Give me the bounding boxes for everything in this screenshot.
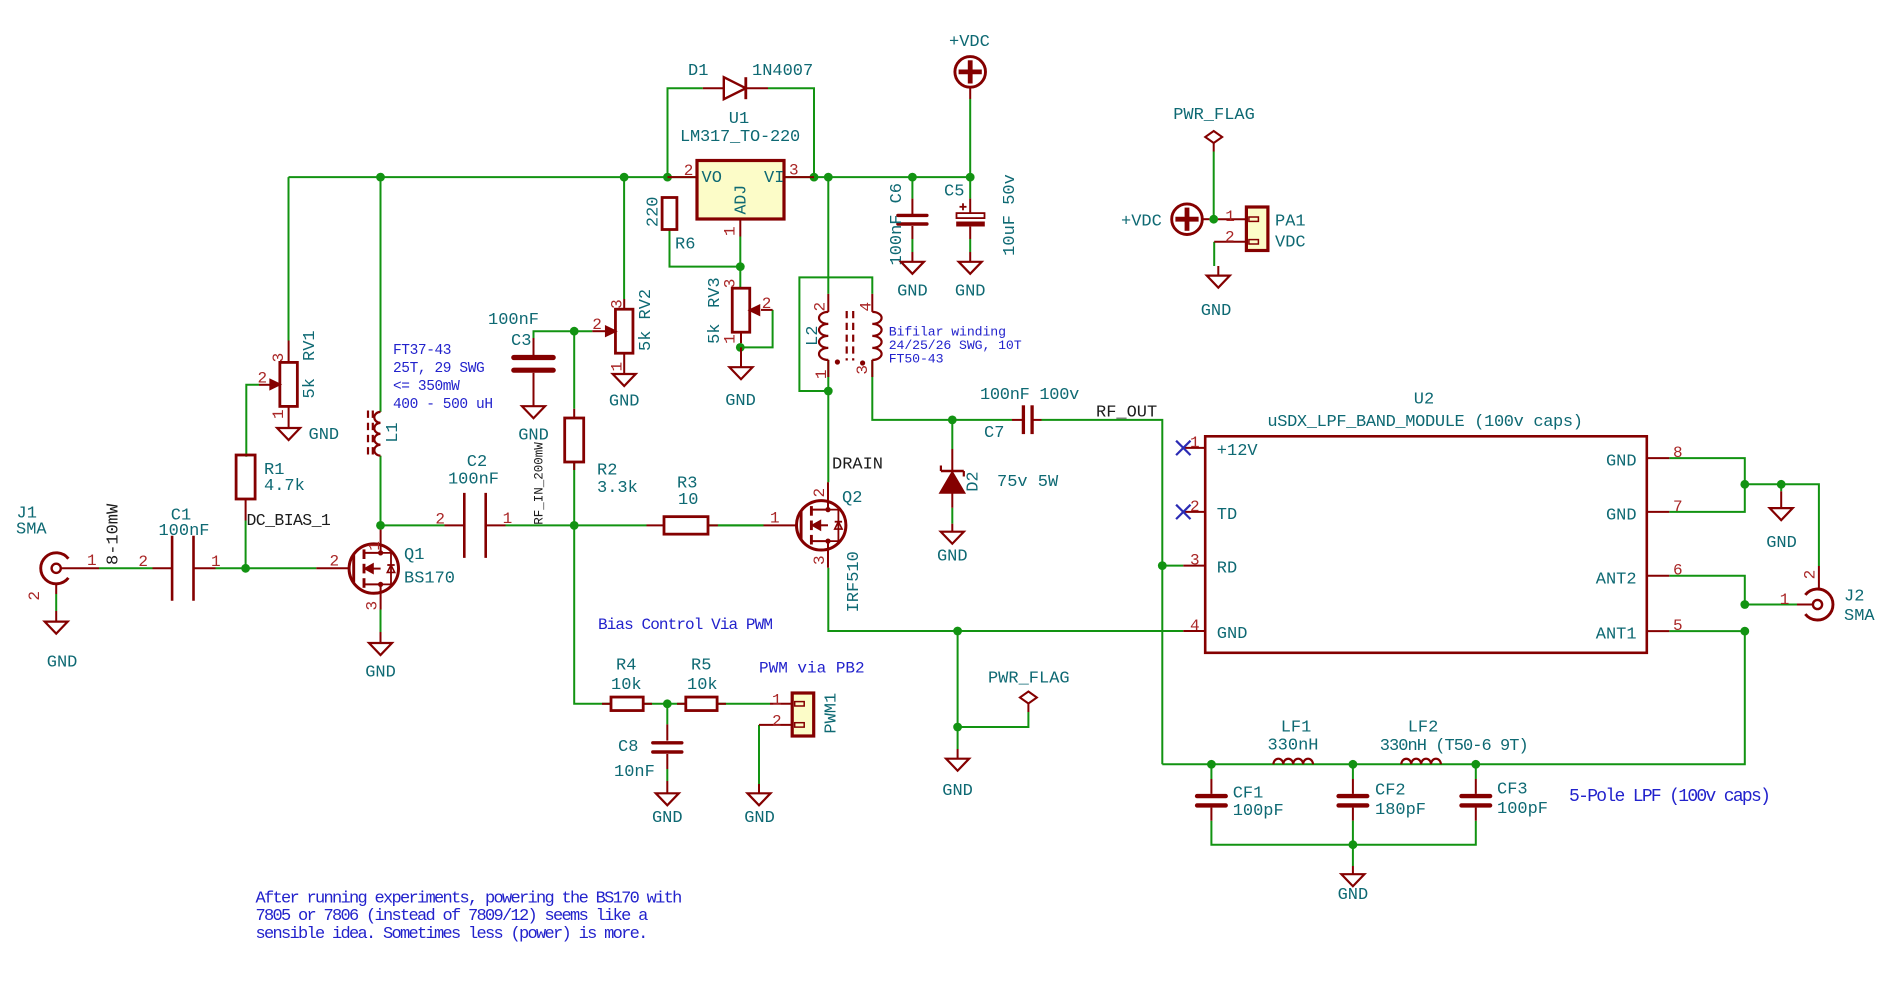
svg-text:3: 3: [270, 353, 288, 363]
svg-text:100pF: 100pF: [1233, 802, 1284, 821]
wire C5 top: [969, 177, 971, 199]
svg-text:GND: GND: [897, 283, 928, 302]
svg-text:GND: GND: [1606, 453, 1637, 472]
svg-text:CF1: CF1: [1233, 785, 1264, 804]
node Q1 drain junction: [376, 521, 385, 530]
svg-text:GND: GND: [609, 393, 640, 412]
svg-text:2: 2: [762, 295, 772, 313]
node D2 junction: [948, 416, 957, 425]
svg-text:2: 2: [1190, 498, 1200, 516]
wire R3 right to Q2 gate: [708, 524, 763, 526]
node J2 pin1 junction: [1740, 600, 1749, 609]
svg-text:J2: J2: [1844, 587, 1864, 606]
ground LPF: [1352, 866, 1354, 874]
connector PWM1: [792, 693, 814, 736]
svg-text:7805 or 7806 (instead of 7809/: 7805 or 7806 (instead of 7809/12) seems …: [256, 907, 649, 926]
svg-text:GND: GND: [955, 283, 986, 302]
power +VDC top: [955, 57, 986, 88]
ground C5: [969, 252, 971, 262]
svg-text:1: 1: [609, 362, 627, 372]
wire D2 top: [951, 420, 953, 449]
svg-text:LF1: LF1: [1281, 719, 1312, 738]
node LPF gnd junction: [1349, 840, 1358, 849]
wire U2 pin8 loop: [1669, 458, 1745, 484]
inductor LF1 330nH: [1273, 759, 1313, 765]
wire junction down from C3 node to R2 top: [573, 331, 575, 409]
svg-text:+VDC: +VDC: [1121, 212, 1162, 231]
transformer L2 FT50-43: [819, 312, 828, 360]
potentiometer RV1 5k: [280, 362, 298, 406]
wire C3 node to RV2 wiper: [534, 331, 593, 355]
diode D1 1N4007: [724, 77, 746, 99]
wire L1 bottom to Q1 drain junction: [380, 456, 382, 526]
svg-text:100nF: 100nF: [888, 214, 907, 265]
ground right star: [1780, 484, 1782, 491]
node RV2 feed junction: [620, 173, 629, 182]
node DC_BIAS_1 junction: [241, 564, 250, 573]
svg-text:R2: R2: [597, 462, 617, 481]
wire CF3 top: [1475, 764, 1477, 779]
svg-text:100nF: 100nF: [488, 311, 539, 330]
svg-text:RD: RD: [1217, 560, 1237, 579]
svg-text:RF_OUT: RF_OUT: [1096, 404, 1157, 423]
ground RV3: [740, 347, 742, 367]
svg-text:1: 1: [722, 226, 740, 236]
svg-text:VDC: VDC: [1275, 233, 1306, 252]
wire ANT1 down to LPF: [1162, 631, 1745, 764]
resistor R4 10k: [611, 697, 643, 711]
svg-text:GND: GND: [1606, 506, 1637, 525]
node VI junction: [810, 173, 819, 182]
svg-text:330nH (T50-6 9T): 330nH (T50-6 9T): [1380, 737, 1528, 756]
svg-text:3: 3: [609, 299, 627, 309]
svg-text:2: 2: [258, 370, 268, 388]
svg-text:PWR_FLAG: PWR_FLAG: [1173, 106, 1255, 125]
connector J2 SMA: [1805, 589, 1833, 620]
svg-text:DC_BIAS_1: DC_BIAS_1: [247, 511, 331, 530]
wire Q1 source segment: [380, 610, 382, 633]
svg-text:CF2: CF2: [1375, 782, 1406, 801]
resistor R2 3.3k: [565, 418, 584, 462]
inductor LF2 330nH: [1401, 759, 1441, 765]
wire L1 top: [380, 177, 382, 412]
svg-text:3: 3: [1190, 552, 1200, 570]
svg-text:400 - 500 uH: 400 - 500 uH: [393, 397, 493, 413]
wire L2 primary top feed: [827, 177, 829, 294]
ground PA1: [1217, 266, 1219, 276]
capacitor C6 100nF: [898, 214, 927, 217]
svg-text:ANT2: ANT2: [1596, 570, 1637, 589]
node RV3 pin1 junction: [736, 343, 745, 352]
ground Q1: [380, 632, 382, 643]
potentiometer RV3 5k: [732, 288, 750, 332]
wire U2 pin6 ANT2 loop: [1669, 576, 1745, 605]
resistor R1 4.7k: [236, 455, 255, 499]
svg-text:LF2: LF2: [1408, 719, 1439, 738]
svg-text:2: 2: [435, 511, 445, 529]
wire L2 pin1 junction down to Q2 drain: [827, 391, 829, 482]
potentiometer RV2 5k: [615, 309, 633, 353]
svg-text:3: 3: [789, 162, 799, 180]
node CF3 junction: [1471, 760, 1480, 769]
svg-text:R4: R4: [616, 656, 636, 675]
svg-text:D1: D1: [688, 62, 708, 81]
svg-text:1: 1: [1780, 591, 1790, 609]
svg-text:GND: GND: [1338, 886, 1369, 905]
svg-text:3: 3: [854, 365, 872, 375]
svg-text:L1: L1: [384, 422, 403, 442]
wire D1 right leg to VI: [768, 88, 814, 177]
svg-text:FT37-43: FT37-43: [393, 343, 451, 359]
svg-text:C7: C7: [984, 424, 1004, 443]
svg-text:TD: TD: [1217, 506, 1237, 525]
svg-text:75v 5W: 75v 5W: [997, 473, 1059, 492]
svg-text:VI: VI: [764, 169, 784, 188]
svg-text:1: 1: [211, 553, 221, 571]
svg-text:GND: GND: [942, 782, 973, 801]
svg-text:25T, 29 SWG: 25T, 29 SWG: [393, 361, 484, 377]
svg-text:2: 2: [772, 713, 782, 731]
wire C8 top: [666, 704, 668, 725]
wire PA1 pwr flag drop: [1213, 152, 1215, 220]
node PWR_FLAG gnd junction: [953, 627, 962, 636]
wire RV1 wiper to R1 top: [246, 385, 259, 457]
svg-text:U1: U1: [729, 110, 749, 129]
wire top rail y=177 from x=288 to U1 VO: [289, 176, 697, 178]
ground C6: [911, 252, 913, 262]
wire U2 pin7 loop: [1669, 484, 1745, 512]
wire L2 pin3 down to RF_OUT rail: [872, 360, 1012, 420]
svg-text:GND: GND: [725, 392, 756, 411]
svg-text:GND: GND: [652, 809, 683, 828]
svg-text:2: 2: [812, 302, 830, 312]
svg-text:C5: C5: [944, 183, 964, 202]
svg-text:10: 10: [678, 491, 698, 510]
capacitor CF1 100pF: [1197, 794, 1226, 798]
svg-text:Bias Control Via PWM: Bias Control Via PWM: [598, 616, 772, 634]
capacitor CF3 100pF: [1462, 794, 1491, 798]
svg-text:10k: 10k: [687, 676, 718, 695]
svg-text:1: 1: [503, 510, 513, 528]
connector PA1 VDC: [1246, 207, 1268, 251]
svg-text:CF3: CF3: [1497, 781, 1528, 800]
svg-text:GND: GND: [1201, 302, 1232, 321]
node CF2 junction: [1349, 760, 1358, 769]
node C5 junction: [966, 173, 975, 182]
svg-text:GND: GND: [1766, 534, 1797, 553]
svg-text:RF_IN_200mW: RF_IN_200mW: [533, 442, 547, 525]
inductor L1: [374, 412, 380, 456]
svg-text:1: 1: [1225, 208, 1235, 226]
wire R5 to PWM1 pin1: [717, 703, 770, 705]
svg-text:IRF510: IRF510: [845, 551, 864, 612]
svg-text:330nH: 330nH: [1267, 737, 1318, 756]
U2 pin7 GND: [1647, 511, 1670, 513]
wire ADJ node to RV3 pin3: [739, 267, 741, 289]
svg-text:R6: R6: [675, 236, 695, 255]
wire R6 bottom to ADJ node: [670, 230, 741, 267]
ground C8: [666, 781, 668, 793]
svg-text:100nF 100v: 100nF 100v: [980, 386, 1079, 405]
wire U1 ADJ down: [739, 237, 741, 267]
svg-text:FT50-43: FT50-43: [889, 352, 944, 367]
svg-text:1N4007: 1N4007: [752, 62, 813, 81]
power flag top right: [1205, 131, 1222, 143]
U2 pin3 RD: [1183, 565, 1205, 567]
wire LPF bottom rail: [1211, 821, 1475, 845]
svg-text:RV1: RV1: [301, 330, 320, 361]
power flag mid: [1020, 692, 1037, 704]
power +VDC right: [1172, 204, 1203, 235]
svg-text:3: 3: [364, 601, 382, 611]
wire D2 bottom segment: [951, 508, 953, 524]
ground J1: [55, 611, 57, 622]
wire Q2 gate green segment: [718, 524, 764, 526]
svg-text:10k: 10k: [611, 676, 642, 695]
resistor R6 220: [662, 198, 677, 230]
regulator U1 LM317_TO-220: [697, 161, 784, 220]
transistor Q1 BS170: [349, 544, 398, 593]
node U2 RD junction: [1158, 561, 1167, 570]
wire R2 bottom to RF_IN rail: [573, 462, 575, 525]
node PWR_FLAG lower junction: [953, 723, 962, 732]
svg-text:U2: U2: [1414, 391, 1434, 410]
svg-text:100nF: 100nF: [448, 471, 499, 490]
wire J1 pin2 segment: [55, 594, 57, 611]
svg-text:GND: GND: [309, 426, 340, 445]
svg-text:2: 2: [138, 553, 148, 571]
svg-text:C6: C6: [888, 183, 907, 203]
svg-text:180pF: 180pF: [1375, 801, 1426, 820]
svg-text:PWM1: PWM1: [823, 693, 842, 734]
wire RV2 top feed: [623, 177, 625, 299]
svg-text:GND: GND: [518, 427, 549, 446]
diode D2 zener 75v 5W: [941, 470, 964, 473]
wire U1 VI to +VDC rail: [784, 176, 970, 178]
wire +VDC down to rail: [969, 99, 971, 177]
svg-text:3.3k: 3.3k: [597, 479, 638, 498]
svg-text:RV3: RV3: [706, 277, 725, 308]
node RF_IN junction: [570, 521, 579, 530]
ground RV2: [613, 374, 636, 386]
U2 pin6 ANT2: [1647, 575, 1670, 577]
resistor R3 10: [664, 517, 708, 535]
capacitor CF2 180pF: [1339, 794, 1368, 798]
U2 pin1 +12V no-connect: [1183, 447, 1205, 449]
svg-text:2: 2: [592, 316, 602, 334]
C3 top pin stub: [533, 338, 535, 355]
svg-text:1: 1: [87, 552, 97, 570]
svg-text:1: 1: [1190, 434, 1200, 452]
wire C5 bottom segment: [969, 239, 971, 252]
ground D2: [951, 524, 953, 532]
wire D1 left leg: [668, 88, 703, 177]
ground C3: [533, 394, 535, 406]
wire bias divider R4-R5 node: [643, 703, 686, 705]
L1 core dashes: [367, 411, 369, 460]
svg-text:uSDX_LPF_BAND_MODULE (100v cap: uSDX_LPF_BAND_MODULE (100v caps): [1267, 413, 1582, 432]
svg-text:4.7k: 4.7k: [264, 477, 305, 496]
svg-text:1: 1: [366, 541, 384, 551]
wire RV3 wiper loop to pin1: [740, 310, 772, 348]
svg-text:SMA: SMA: [1844, 607, 1875, 626]
svg-text:RV2: RV2: [637, 289, 656, 320]
svg-text:SMA: SMA: [16, 521, 47, 540]
wire gnd star to J2 pin2: [1745, 484, 1819, 566]
ground PWM1: [758, 784, 760, 793]
node PA1 junction: [1209, 215, 1218, 224]
wire C2 to R3 rail with RF_IN junction: [506, 524, 647, 526]
svg-text:GND: GND: [744, 809, 775, 828]
wire C3 bottom segment: [533, 373, 535, 394]
wire CF2 bottom: [1352, 821, 1354, 845]
node L2 feed junction: [824, 173, 833, 182]
wire top rail corner down to RV1 pin3: [288, 177, 290, 340]
svg-text:4: 4: [857, 302, 875, 312]
svg-text:+VDC: +VDC: [949, 33, 990, 52]
wire PWR_FLAG gnd drop: [958, 631, 1029, 727]
module U2 uSDX_LPF_BAND_MODULE: [1205, 436, 1647, 653]
svg-text:C2: C2: [467, 453, 487, 472]
svg-text:VO: VO: [702, 169, 722, 188]
svg-text:ANT1: ANT1: [1596, 626, 1637, 645]
node gnd star junction: [1740, 480, 1749, 489]
svg-text:2: 2: [1225, 229, 1235, 247]
node U1 VO junction: [663, 173, 672, 182]
node C6 junction: [908, 173, 917, 182]
node C3 junction: [570, 327, 579, 336]
node L2 pin1 junction: [824, 387, 833, 396]
svg-text:BS170: BS170: [404, 569, 455, 588]
svg-text:5-Pole LPF (100v caps): 5-Pole LPF (100v caps): [1569, 787, 1769, 807]
resistor R5 10k: [686, 697, 717, 711]
wire L2 pin1 to pin4 wrap: [799, 277, 872, 391]
svg-text:Q1: Q1: [404, 546, 424, 565]
transistor Q2 IRF510: [797, 501, 846, 550]
wire U2 pin5 ANT1: [1669, 630, 1745, 632]
capacitor C3 100nF: [514, 355, 553, 360]
wire Q1 drain junction to C2: [381, 524, 445, 526]
svg-text:After running experiments, pow: After running experiments, powering the …: [256, 889, 682, 908]
wire C6 bottom segment: [911, 239, 913, 252]
svg-text:Q2: Q2: [842, 489, 862, 508]
svg-text:L2: L2: [804, 326, 823, 346]
svg-text:1: 1: [813, 369, 831, 379]
svg-text:6: 6: [1673, 562, 1683, 580]
svg-text:R5: R5: [691, 656, 711, 675]
wire LPF gnd stem: [1352, 845, 1354, 866]
svg-text:5k: 5k: [301, 378, 320, 398]
svg-text:D2: D2: [965, 471, 984, 491]
U2 pin4 GND: [1183, 630, 1205, 632]
wire RF_IN rail down to bias divider: [574, 525, 611, 703]
capacitor C2 100nF: [463, 493, 466, 558]
svg-text:220: 220: [645, 196, 664, 227]
wire Q2 source down to GND rail: [828, 568, 1183, 631]
capacitor C8 10nF: [653, 741, 682, 744]
wire PWM1 pin2 to GND: [758, 725, 760, 784]
svg-text:100pF: 100pF: [1497, 800, 1548, 819]
capacitor C1 100nF: [171, 536, 174, 601]
svg-text:8-10mW: 8-10mW: [105, 503, 124, 565]
wire C7 right to RF_OUT corner down to U2 RD: [1042, 420, 1163, 764]
ground RV1: [277, 428, 300, 440]
wire PA1 pin2 to GND: [1213, 242, 1215, 266]
wire CF2 top: [1352, 764, 1354, 779]
svg-text:sensible idea. Sometimes less: sensible idea. Sometimes less (power) is…: [256, 925, 647, 944]
svg-text:2: 2: [1802, 570, 1820, 580]
wire R1 bottom to junction: [245, 521, 247, 569]
wire J2 pin1 feed: [1745, 604, 1797, 606]
svg-text:100nF: 100nF: [158, 522, 209, 541]
svg-text:2: 2: [684, 162, 694, 180]
svg-text:2: 2: [26, 591, 44, 601]
svg-text:GND: GND: [47, 654, 78, 673]
svg-text:C3: C3: [511, 332, 531, 351]
svg-text:<= 350mW: <= 350mW: [393, 379, 460, 395]
svg-text:10uF 50v: 10uF 50v: [1001, 174, 1020, 256]
svg-text:5k: 5k: [706, 323, 725, 343]
svg-text:3: 3: [811, 555, 829, 565]
svg-text:GND: GND: [1217, 625, 1248, 644]
svg-text:GND: GND: [937, 548, 968, 567]
svg-text:1: 1: [772, 692, 782, 710]
svg-text:PWR_FLAG: PWR_FLAG: [988, 669, 1070, 688]
wire to mid GND symbol: [957, 727, 959, 749]
wire C6 top: [911, 177, 913, 199]
svg-text:1: 1: [270, 409, 288, 419]
U2 pin2 TD no-connect: [1183, 511, 1205, 513]
wire C1 to Q1 gate with DC_BIAS junction: [216, 567, 317, 569]
svg-text:GND: GND: [365, 664, 396, 683]
wire RD junction to U2 pin3: [1162, 565, 1183, 567]
svg-text:8: 8: [1673, 444, 1683, 462]
svg-text:ADJ: ADJ: [732, 185, 751, 215]
node ADJ junction: [736, 262, 745, 271]
svg-text:+12V: +12V: [1217, 442, 1259, 461]
capacitor C5 10uF 50v polarized: [957, 213, 985, 218]
svg-text:C8: C8: [618, 738, 638, 757]
wire C8 bottom segment: [666, 769, 668, 781]
svg-text:5k: 5k: [637, 331, 656, 351]
node right gnd junction: [1777, 480, 1786, 489]
node ANT1 junction: [1740, 627, 1749, 636]
node CF1 junction: [1207, 760, 1216, 769]
node bias divider junction: [663, 699, 672, 708]
node L1 top junction: [376, 173, 385, 182]
svg-text:PWM via PB2: PWM via PB2: [759, 660, 865, 678]
capacitor C7 100nF 100v: [1022, 405, 1025, 434]
svg-text:10nF: 10nF: [614, 763, 655, 782]
svg-text:LM317_TO-220: LM317_TO-220: [680, 128, 800, 147]
connector J1 SMA: [41, 553, 69, 584]
svg-text:7: 7: [1673, 498, 1683, 516]
wire J1 pin1 to C1: [99, 567, 153, 569]
svg-text:2: 2: [811, 488, 829, 498]
svg-text:5: 5: [1673, 617, 1683, 635]
U2 pin5 ANT1: [1647, 630, 1670, 632]
wire CF1 top: [1210, 764, 1212, 779]
svg-text:DRAIN: DRAIN: [832, 456, 883, 475]
ground mid power flag: [957, 749, 959, 759]
svg-text:2: 2: [330, 553, 340, 571]
svg-text:4: 4: [1190, 617, 1200, 635]
U2 pin8 GND: [1647, 457, 1670, 459]
svg-text:PA1: PA1: [1275, 212, 1306, 231]
